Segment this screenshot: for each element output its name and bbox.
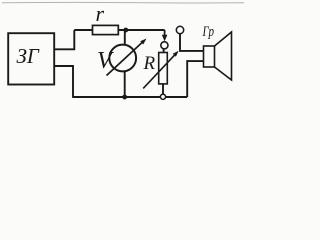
wire top rail left [74,29,92,31]
rheostat R body [159,53,168,84]
svg-text:V: V [97,48,114,74]
svg-text:r: r [96,1,105,26]
wire jack A to rheostat [163,49,165,53]
plug arrow from rail [162,30,168,41]
wire speaker bottom to bottom rail [187,61,203,97]
rheostat arrow [143,51,178,89]
wire voltmeter top stem [124,30,126,45]
svg-text:R: R [143,53,156,74]
wire top rail right [118,29,164,31]
wire bottom rail [72,96,187,98]
wire rheostat bottom stem [162,84,164,97]
voltmeter needle arrow [107,39,147,76]
loudspeaker Гр [204,32,232,80]
wire jack B to speaker top [180,34,204,51]
svg-text:ЗГ: ЗГ [17,44,40,68]
wire box bottom output down [54,66,73,97]
scan top border line [2,1,244,4]
wire box top output to rail [54,30,74,49]
jack terminal A [161,42,168,49]
wire voltmeter bottom stem [124,71,126,97]
node junction bottom voltmeter [122,95,127,100]
svg-text:Гр: Гр [202,24,215,40]
jack terminal B [176,26,183,33]
generator box ЗГ [8,33,54,84]
node junction bottom rheostat (open terminal) [160,94,165,99]
voltmeter V circle [109,45,136,72]
node junction top rail [123,28,128,33]
resistor r [93,25,119,34]
